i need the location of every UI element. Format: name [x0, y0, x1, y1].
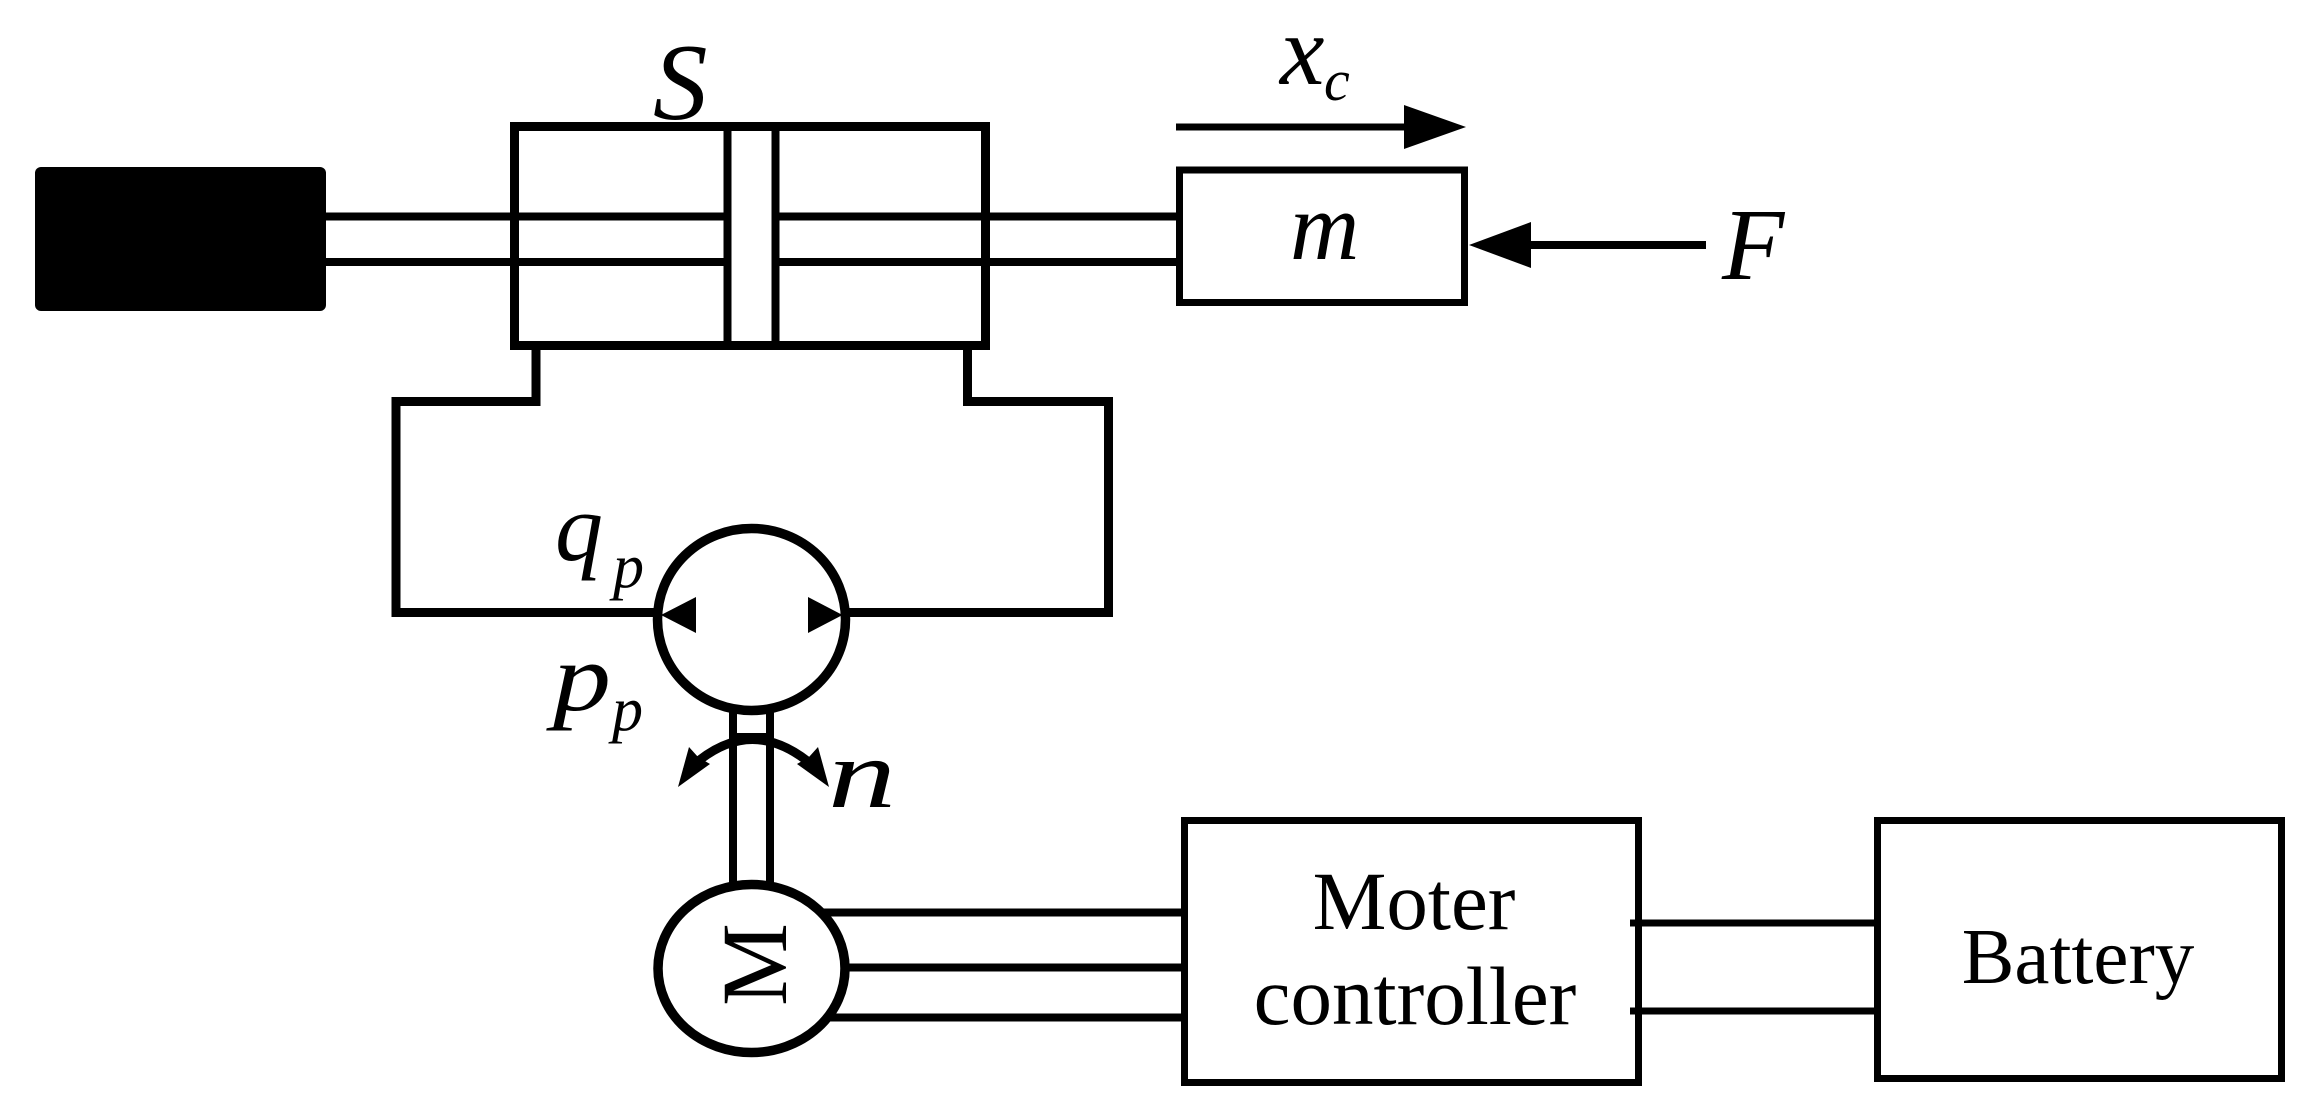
- battery box: [1878, 821, 2282, 1079]
- motor circle M: [658, 885, 845, 1053]
- motor wire bottom: [760, 1014, 1184, 1022]
- svg-text:n: n: [828, 721, 896, 829]
- svg-text:q: q: [555, 474, 603, 581]
- pump right triangle: [808, 597, 843, 633]
- piston rod upper line: [326, 213, 1180, 221]
- force F line: [1531, 241, 1706, 249]
- piston left wall: [724, 122, 732, 350]
- svg-text:Battery: Battery: [1962, 914, 2195, 1001]
- piston rod lower line: [326, 258, 1180, 266]
- force F head: [1469, 222, 1531, 268]
- piston interior gap: [731, 131, 772, 341]
- rotation arc right head: [797, 747, 829, 787]
- svg-text:F: F: [1721, 189, 1786, 302]
- motor shaft left line: [729, 700, 737, 890]
- cylinder body S: [515, 127, 986, 346]
- piston right wall: [772, 122, 780, 350]
- arrow x_c line: [1176, 124, 1406, 131]
- motor controller box: [1185, 821, 1639, 1083]
- svg-text:p: p: [609, 533, 644, 601]
- svg-text:M: M: [704, 923, 807, 1006]
- rotation arc left head: [678, 747, 710, 787]
- wire controller to battery top: [1630, 920, 1880, 927]
- right port pipe from cylinder to pump loop: [968, 345, 1109, 616]
- pump left triangle: [661, 597, 696, 633]
- motor wire top: [760, 909, 1184, 917]
- svg-text:p: p: [546, 624, 611, 731]
- svg-text:c: c: [1324, 48, 1350, 113]
- mass block m: [1180, 170, 1465, 303]
- svg-text:p: p: [608, 676, 643, 744]
- bottom hydraulic pipe: [392, 608, 1114, 617]
- motor wire middle: [760, 964, 1184, 972]
- pump circle: [658, 529, 846, 711]
- svg-text:Moter: Moter: [1313, 855, 1516, 947]
- svg-text:m: m: [1290, 173, 1359, 280]
- svg-text:x: x: [1278, 0, 1324, 106]
- arrow x_c head: [1404, 105, 1466, 149]
- svg-text:S: S: [653, 22, 708, 143]
- rotation arc n: [686, 740, 820, 773]
- svg-text:controller: controller: [1254, 950, 1577, 1042]
- motor shaft right line: [766, 700, 774, 890]
- fixed anchor block: [35, 167, 326, 311]
- wire controller to battery bottom: [1630, 1008, 1880, 1015]
- left port pipe from cylinder to pump loop: [396, 345, 536, 616]
- shaft coupling bar: [735, 733, 769, 741]
